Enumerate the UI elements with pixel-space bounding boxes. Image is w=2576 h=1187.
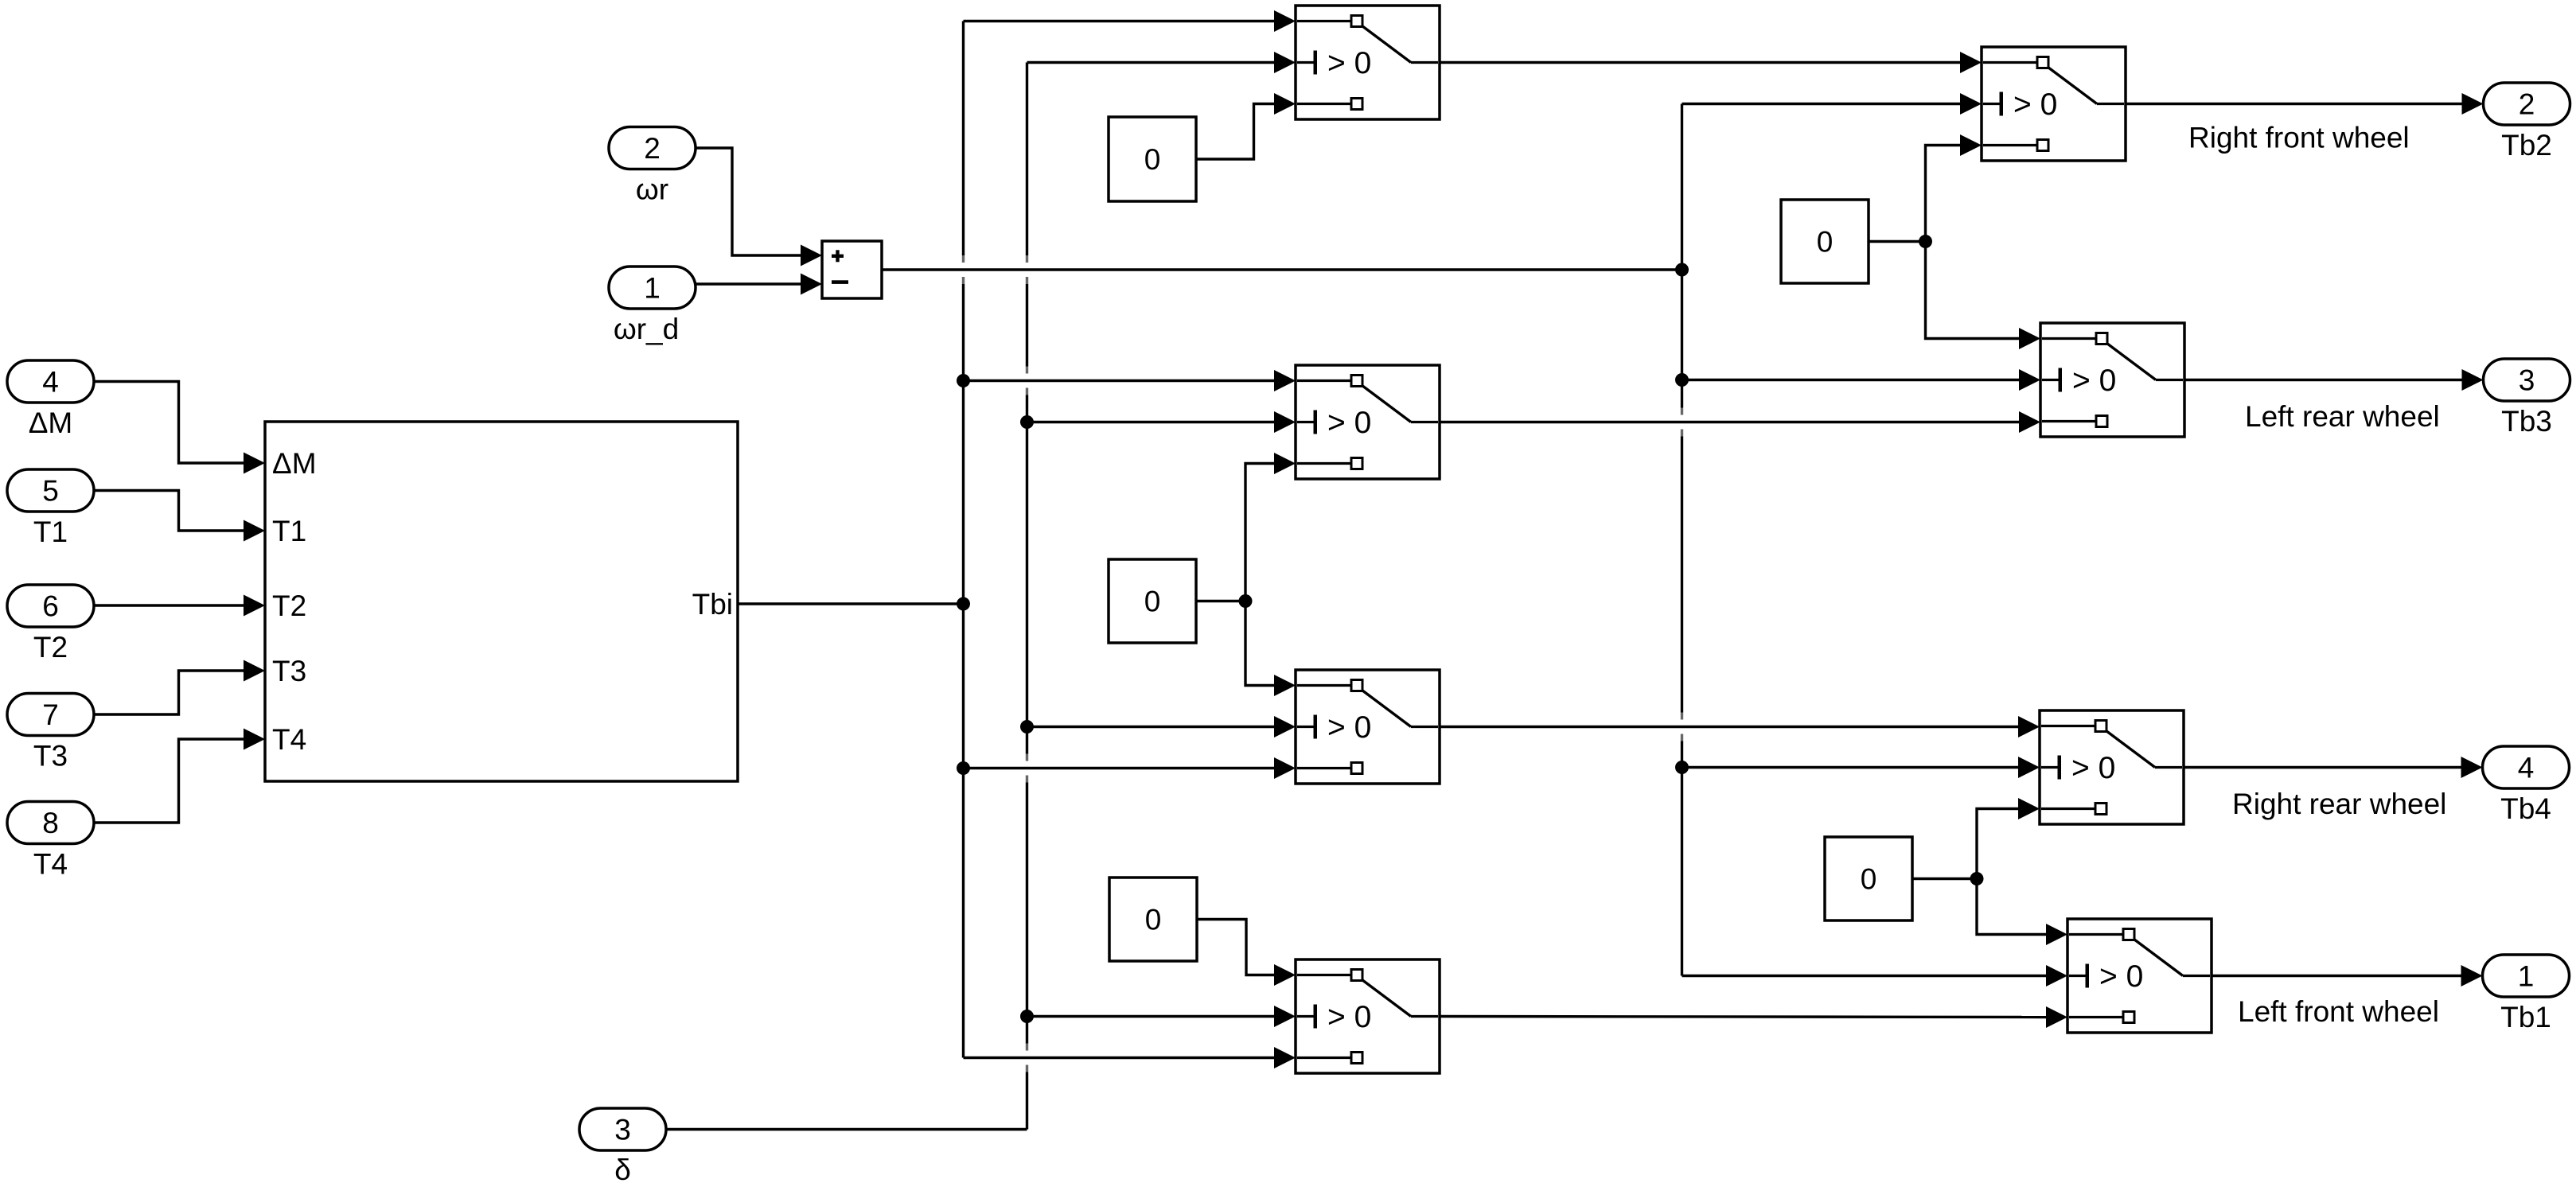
label Tb4 xyxy=(2500,792,2551,825)
svg-text:T3: T3 xyxy=(272,655,306,687)
label Tb1 xyxy=(2500,1001,2551,1033)
svg-text:2: 2 xyxy=(644,132,661,165)
annotation Left rear wheel xyxy=(2245,400,2440,433)
svg-text:T2: T2 xyxy=(33,631,68,664)
wire: V3 speed-error distribution vertical trunk xyxy=(1681,104,1683,976)
wire: V3 top turn to switch E input 2 xyxy=(1682,103,1962,105)
svg-text:3: 3 xyxy=(614,1114,631,1146)
svg-text:> 0: > 0 xyxy=(1327,406,1371,440)
wire: switch H output to outport 1 xyxy=(2212,975,2462,977)
constant K1 (0) xyxy=(1109,117,1196,201)
svg-text:0: 0 xyxy=(1144,586,1161,618)
arrow into switch G input 2 xyxy=(2018,757,2040,778)
wire: constant K4 output stub xyxy=(1869,240,1926,243)
node junction V2 switch D feed xyxy=(1020,1010,1034,1023)
wire: switch B output to switch F input 3 xyxy=(1440,421,2021,423)
svg-text:0: 0 xyxy=(1145,904,1162,936)
outport 4 (Tb4) xyxy=(2483,746,2570,788)
arrow into switch F input 3 xyxy=(2019,411,2040,433)
constant K2 (0) xyxy=(1109,559,1196,643)
node junction K4 output xyxy=(1919,235,1932,248)
svg-text:1: 1 xyxy=(2518,960,2535,993)
annotation Left front wheel xyxy=(2238,995,2439,1028)
wire: switch F output to outport 3 xyxy=(2184,379,2463,381)
wire: inport 1 to sum minus input xyxy=(696,282,801,285)
node junction K5 output xyxy=(1970,872,1984,885)
svg-text:> 0: > 0 xyxy=(2013,88,2057,122)
svg-text:δ: δ xyxy=(614,1154,631,1186)
wire: V3 to switch F input 2 xyxy=(1682,379,2021,381)
arrow into switch B input 1 xyxy=(1274,370,1296,391)
svg-text:0: 0 xyxy=(1861,863,1877,896)
svg-text:T1: T1 xyxy=(272,515,306,547)
svg-text:> 0: > 0 xyxy=(2072,364,2116,398)
arrow into switch C input 1 xyxy=(1274,675,1296,696)
wire: V1 to switch C input 3 xyxy=(964,767,1276,769)
crossover gap V2 at switch C bottom feed xyxy=(1025,754,1029,783)
arrow into switch B input 2 xyxy=(1274,411,1296,433)
arrow into outport 3 xyxy=(2462,369,2484,391)
node junction V3 switch F feed xyxy=(1675,373,1689,387)
annotation Right rear wheel xyxy=(2232,788,2446,820)
label dM xyxy=(29,407,73,439)
svg-text:7: 7 xyxy=(42,699,59,731)
node junction V1 switch C feed xyxy=(957,761,970,775)
switch A (front axle right/left select) xyxy=(1296,6,1440,119)
subsystem block (torque distribution, Tbi) xyxy=(265,422,738,781)
node junction V2 switch C feed xyxy=(1020,720,1034,734)
svg-text:0: 0 xyxy=(1144,143,1161,176)
arrow into switch G input 3 xyxy=(2018,798,2040,819)
crossover gap V2 at switch B top feed xyxy=(1025,367,1029,395)
arrow into switch D input 3 xyxy=(1274,1047,1296,1068)
constant K5 (0) xyxy=(1825,837,1912,920)
switch B xyxy=(1296,365,1440,479)
label Tb3 xyxy=(2501,405,2552,438)
svg-text:> 0: > 0 xyxy=(2071,751,2115,785)
wire: inport 5 to subsystem T1 xyxy=(94,491,244,531)
arrow into switch E input 3 xyxy=(1960,134,1982,156)
svg-text:Left rear wheel: Left rear wheel xyxy=(2245,400,2440,433)
svg-text:4: 4 xyxy=(2518,752,2535,784)
svg-text:Tb4: Tb4 xyxy=(2500,792,2551,825)
svg-text:> 0: > 0 xyxy=(2099,959,2143,994)
outport 2 (Tb2) xyxy=(2484,83,2570,125)
node junction V1/TbI xyxy=(957,597,970,611)
wire: inport 8 to subsystem T4 xyxy=(94,739,244,823)
wire: V1 bottom turn to switch D input 3 xyxy=(964,1057,1276,1059)
wire: V1 to switch B input 1 xyxy=(964,379,1276,382)
svg-text:3: 3 xyxy=(2519,364,2535,397)
svg-text:Tb2: Tb2 xyxy=(2501,129,2552,162)
arrow into switch A input 1 xyxy=(1274,10,1296,32)
wire: switch E output to outport 2 xyxy=(2126,103,2463,105)
crossover gap V3 at switch G top feed xyxy=(1680,713,1684,741)
switch F (Left rear wheel) xyxy=(2040,323,2184,437)
arrow into switch A input 2 xyxy=(1274,52,1296,73)
inport 1 (wr_d) xyxy=(609,267,696,309)
arrow into switch G input 1 xyxy=(2018,716,2040,737)
arrow into switch D input 1 xyxy=(1274,964,1296,986)
label wr xyxy=(636,173,668,206)
wire: switch G output to outport 4 xyxy=(2184,766,2462,769)
wire: riser from constant K3 to switch D top xyxy=(1197,920,1276,975)
svg-text:0: 0 xyxy=(1817,226,1834,259)
wire: V2 top turn to switch A input 2 xyxy=(1027,61,1276,64)
switch H (Left front wheel) xyxy=(2067,919,2212,1033)
arrow into switch C input 3 xyxy=(1274,757,1296,779)
arrow into switch E input 2 xyxy=(1960,93,1982,115)
svg-text:Tbi: Tbi xyxy=(692,588,733,621)
outport 1 (Tb1) xyxy=(2483,955,2570,997)
switch D xyxy=(1296,959,1440,1073)
svg-text:8: 8 xyxy=(42,807,59,839)
annotation Right front wheel xyxy=(2188,122,2410,154)
wire: switch D output to switch H input 3 xyxy=(1440,1017,2048,1018)
svg-text:T4: T4 xyxy=(33,848,68,881)
arrow into switch H input 2 xyxy=(2046,965,2067,987)
inport 4 (dM) xyxy=(7,360,94,403)
crossover gap V3 at switch F bottom feed xyxy=(1680,408,1684,437)
inport 8 (T4) xyxy=(7,802,94,844)
node junction V1 switch B feed xyxy=(957,374,970,387)
arrow into subsystem T3 xyxy=(244,660,265,682)
inport 3 (delta) xyxy=(579,1108,666,1150)
node junction V2 switch B feed xyxy=(1020,415,1034,429)
wire: subsystem Tbi output to V1 xyxy=(738,602,964,605)
crossover gap V2 at sum line xyxy=(1025,255,1029,284)
node junction V3 switch G feed xyxy=(1675,761,1689,774)
arrow into switch H input 3 xyxy=(2046,1006,2067,1028)
wire: V3 to switch G input 2 xyxy=(1682,766,2021,769)
wire: riser from constant K5 junction to switches G and H xyxy=(1977,809,2048,935)
label T1 xyxy=(33,516,68,548)
svg-text:ΔM: ΔM xyxy=(272,447,317,480)
svg-text:Tb1: Tb1 xyxy=(2500,1001,2551,1033)
inport 7 (T3) xyxy=(7,694,94,736)
wire: V3 bottom turn to switch H input 2 xyxy=(1682,975,2048,977)
arrow into switch H input 1 xyxy=(2046,924,2067,945)
svg-text:ΔM: ΔM xyxy=(29,407,73,439)
wire: V2 to switch D input 2 xyxy=(1027,1015,1276,1018)
arrow into subsystem dM xyxy=(244,453,265,474)
wire: V1 Tbi distribution vertical trunk xyxy=(962,21,965,1058)
node junction K2 output xyxy=(1239,594,1253,608)
arrow into subsystem T1 xyxy=(244,520,265,542)
arrow into switch D input 2 xyxy=(1274,1006,1296,1027)
svg-text:T3: T3 xyxy=(33,740,68,773)
wire: constant K2 output stub xyxy=(1196,600,1245,602)
wire: inport 4 to subsystem dM xyxy=(94,382,244,464)
inport 5 (T1) xyxy=(7,469,94,512)
arrow into switch A input 3 xyxy=(1274,93,1296,115)
wire: riser from constant K2 junction to switches B and C xyxy=(1245,464,1276,686)
wire: riser from constant K1 to switch A bottom xyxy=(1196,104,1276,160)
switch G (Right rear wheel) xyxy=(2040,710,2184,824)
node junction V3 sum arrival xyxy=(1675,263,1689,277)
wire: inport 7 to subsystem T3 xyxy=(94,671,244,714)
svg-text:Right rear wheel: Right rear wheel xyxy=(2232,788,2446,820)
wire: V2 to switch C input 2 xyxy=(1027,726,1276,728)
wire: switch C output to switch G input 1 xyxy=(1440,726,2020,728)
arrow into outport 2 xyxy=(2462,93,2484,115)
wire: inport 6 to subsystem T2 xyxy=(94,604,244,606)
svg-text:Left front wheel: Left front wheel xyxy=(2238,995,2439,1028)
arrow into subsystem T4 xyxy=(244,729,265,750)
inport 2 (wr) xyxy=(609,127,696,169)
wire: V2 delta distribution vertical trunk xyxy=(1026,63,1028,1130)
arrow into switch C input 2 xyxy=(1274,716,1296,737)
svg-text:5: 5 xyxy=(42,475,59,508)
svg-text:> 0: > 0 xyxy=(1327,1000,1371,1034)
arrow into outport 4 xyxy=(2461,757,2483,778)
arrow into sum minus xyxy=(801,274,822,295)
outport 3 (Tb3) xyxy=(2484,359,2570,401)
label T2 xyxy=(33,631,68,664)
label delta xyxy=(614,1154,631,1186)
arrow into sum plus xyxy=(801,245,822,267)
svg-text:> 0: > 0 xyxy=(1327,710,1371,745)
svg-text:2: 2 xyxy=(2519,88,2535,121)
svg-text:Tb3: Tb3 xyxy=(2501,405,2552,438)
crossover gap V2 at switch D bottom feed xyxy=(1025,1044,1029,1072)
arrow into switch B input 3 xyxy=(1274,453,1296,474)
svg-text:ωr_d: ωr_d xyxy=(614,313,679,345)
svg-text:> 0: > 0 xyxy=(1327,46,1371,80)
sum block xyxy=(822,241,882,298)
label wr_d xyxy=(614,313,679,345)
wire: switch A output to switch E input 1 xyxy=(1440,61,1962,64)
crossover gap V1 at sum line xyxy=(961,255,965,284)
arrow into switch F input 1 xyxy=(2019,328,2040,349)
constant K3 (0) xyxy=(1109,878,1197,961)
wire: sum output to V3 xyxy=(882,268,1682,270)
svg-text:ωr: ωr xyxy=(636,173,668,206)
svg-text:T2: T2 xyxy=(272,590,306,622)
constant K4 (0) xyxy=(1781,200,1869,283)
svg-text:6: 6 xyxy=(42,590,59,623)
label T3 xyxy=(33,740,68,773)
arrow into switch F input 2 xyxy=(2019,369,2040,391)
label Tb2 xyxy=(2501,129,2552,162)
switch E (Right front wheel) xyxy=(1982,47,2126,161)
svg-text:T4: T4 xyxy=(272,723,306,756)
arrow into outport 1 xyxy=(2461,965,2483,987)
wire: V1 top turn to switch A input 1 xyxy=(964,20,1276,22)
wire: inport 3 delta to V2 xyxy=(666,1128,1027,1131)
label T4 xyxy=(33,848,68,881)
inport 6 (T2) xyxy=(7,585,94,627)
wire: constant K5 output stub xyxy=(1912,878,1977,880)
svg-text:4: 4 xyxy=(42,366,59,399)
wire: inport 2 to sum plus input xyxy=(696,148,801,255)
svg-text:1: 1 xyxy=(644,272,661,305)
switch C xyxy=(1296,670,1440,784)
svg-text:T1: T1 xyxy=(33,516,68,548)
svg-text:Right front wheel: Right front wheel xyxy=(2188,122,2410,154)
wire: riser from constant K4 junction to switches E and F xyxy=(1926,146,2021,339)
arrow into switch E input 1 xyxy=(1960,52,1982,73)
wire: V2 to switch B input 2 xyxy=(1027,421,1276,423)
arrow into subsystem T2 xyxy=(244,595,265,617)
